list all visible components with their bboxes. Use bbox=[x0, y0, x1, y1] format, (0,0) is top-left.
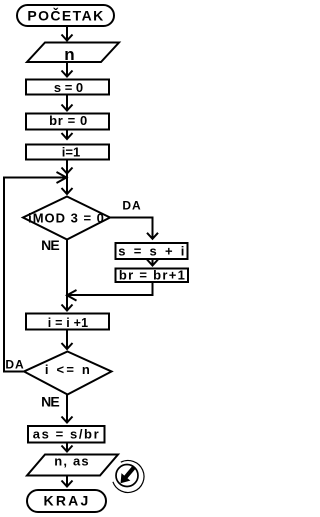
icon circled arrow stamp bbox=[113, 460, 144, 492]
io parallelogram n bbox=[27, 43, 119, 63]
svg-text:i <= n: i <= n bbox=[45, 362, 92, 377]
wire bbox=[66, 96, 68, 111]
svg-text:iMOD 3 = 0: iMOD 3 = 0 bbox=[28, 211, 105, 226]
svg-text:n, as: n, as bbox=[54, 454, 90, 469]
wire bbox=[66, 130, 68, 140]
svg-text:NE: NE bbox=[41, 394, 59, 410]
wire n,as to KRAJ bbox=[66, 476, 68, 487]
decision diamond iMOD 3 = 0 bbox=[23, 197, 110, 240]
wire junction to diamond1 bbox=[66, 166, 68, 194]
wire diamond2 NE down bbox=[66, 395, 68, 423]
arrowhead right at loop junction bbox=[57, 172, 67, 183]
process box as = s/br bbox=[28, 426, 105, 443]
arrowhead into i=1 bbox=[62, 133, 73, 139]
arrowhead into as=s/br bbox=[62, 417, 73, 423]
decision diamond i <= n bbox=[24, 352, 112, 395]
arrowhead into i=i+1 bbox=[62, 305, 73, 311]
terminator KRAJ bbox=[27, 490, 106, 512]
arrowhead left into main line bbox=[67, 290, 77, 301]
process box i=1 bbox=[26, 145, 109, 160]
svg-text:as = s/br: as = s/br bbox=[33, 427, 101, 442]
arrowhead into KRAJ bbox=[62, 481, 73, 487]
svg-text:s = 0: s = 0 bbox=[54, 80, 83, 95]
process box s = s + i bbox=[116, 243, 188, 259]
svg-text:NE: NE bbox=[41, 237, 59, 253]
svg-text:i = i +1: i = i +1 bbox=[48, 316, 89, 330]
wire DA branch right bbox=[110, 218, 153, 239]
process box br = 0 bbox=[26, 114, 109, 130]
wire between s=s+i and br=br+1 bbox=[152, 260, 154, 266]
wire bbox=[66, 161, 68, 171]
wire as=s/br to n,as bbox=[66, 443, 68, 452]
svg-text:DA: DA bbox=[5, 358, 24, 372]
io parallelogram n, as bbox=[27, 455, 118, 476]
wire down-left back to main line bbox=[66, 283, 153, 295]
svg-text:KRAJ: KRAJ bbox=[44, 493, 91, 509]
svg-text:i=1: i=1 bbox=[62, 145, 80, 160]
process box s = 0 bbox=[26, 80, 109, 95]
process box br = br+1 bbox=[116, 269, 189, 283]
arrowhead into s=0 bbox=[62, 71, 73, 77]
svg-text:br = br+1: br = br+1 bbox=[119, 268, 186, 283]
arrowhead into n,as bbox=[62, 446, 73, 452]
arrowhead into diamond1 bbox=[62, 188, 73, 194]
arrowhead into diamond2 bbox=[62, 343, 73, 349]
arrowhead into n bbox=[62, 35, 73, 41]
arrowhead into s=s+i bbox=[147, 233, 158, 239]
wire loop-back from diamond2 DA left bbox=[4, 178, 66, 372]
svg-text:br = 0: br = 0 bbox=[49, 113, 88, 128]
wire i=i+1 to diamond2 bbox=[66, 331, 68, 350]
wire bbox=[66, 62, 68, 77]
arrowhead above loop junction bbox=[62, 168, 73, 174]
svg-text:DA: DA bbox=[122, 199, 141, 213]
wire bbox=[66, 26, 68, 41]
arrowhead into br=0 bbox=[62, 105, 73, 111]
process box i = i + 1 bbox=[26, 314, 109, 330]
arrowhead into br=br+1 bbox=[147, 260, 158, 266]
terminator POČETAK bbox=[17, 5, 114, 26]
svg-text:n: n bbox=[64, 45, 74, 64]
wire diamond1 NE down to i=i+1 bbox=[66, 240, 68, 311]
svg-text:s = s + i: s = s + i bbox=[118, 244, 186, 259]
svg-text:POČETAK: POČETAK bbox=[27, 7, 104, 24]
